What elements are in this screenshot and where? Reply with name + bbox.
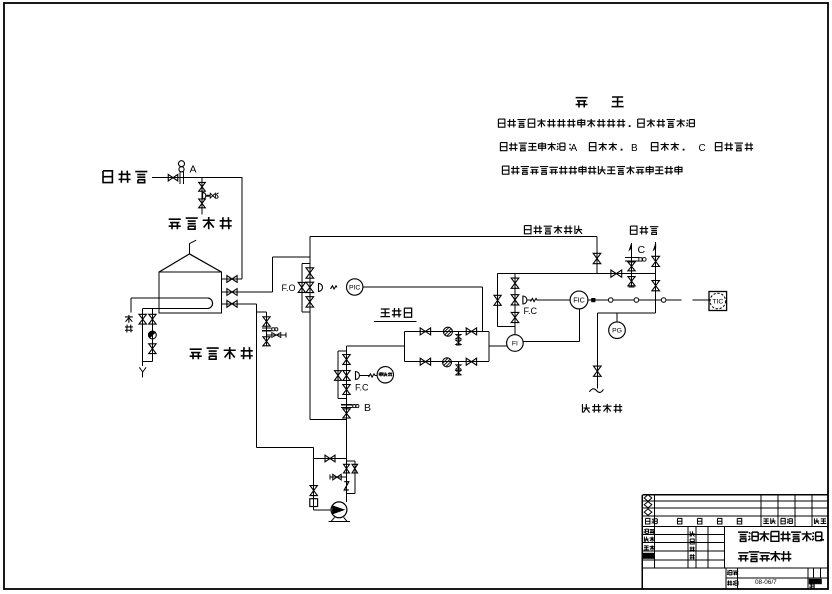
pipe suction into pump (314, 509, 332, 511)
blind plate B flange (341, 404, 352, 406)
valve tank middle nozzle (227, 289, 237, 296)
svg-text:08-06/7: 08-06/7 (755, 579, 777, 586)
valve FC-group top (511, 278, 519, 288)
valve V-inlet (168, 174, 178, 181)
tank body (159, 272, 221, 313)
pipe condensate left chain (142, 309, 144, 367)
valve F.O middle (306, 282, 314, 292)
suction strainer box (310, 499, 318, 507)
title block left column labels (644, 529, 649, 533)
valve F.O top (306, 268, 314, 278)
svg-text:TIC: TIC (712, 299, 723, 306)
arrow tip burner C (629, 244, 631, 251)
title block outline and rows (642, 494, 828, 496)
blind C handle (639, 258, 642, 261)
drawing title line 1 加热炉燃料油盲板、 (738, 532, 748, 541)
steam trap (149, 331, 157, 339)
figure-8 blind symbol above flange (179, 161, 185, 167)
valve filter top outlet (466, 328, 476, 335)
pipe FC-group main vertical (514, 274, 516, 327)
pipe discharge bypass loop (347, 460, 355, 462)
valve purge assembly upper (263, 317, 270, 326)
valve riser v3 (343, 385, 350, 395)
svg-text:B: B (364, 402, 371, 414)
pipe pump riser vertical (346, 346, 348, 502)
instrument PIC (347, 279, 363, 295)
pipe down from inlet to tank top nozzle (241, 177, 243, 279)
valve purge lower (199, 199, 206, 208)
valve suction (310, 486, 317, 496)
drain under bottom branch (457, 362, 459, 375)
valve riser bypass (335, 371, 342, 381)
instrument PG with stem (616, 313, 618, 322)
break squiggle at steam source (589, 389, 603, 393)
pipe main burner header (498, 273, 656, 275)
pipe tank bottom nozzle (221, 303, 256, 305)
pipe filter inlet (347, 345, 405, 347)
pipe tank middle nozzle to F.O manifold (221, 291, 272, 293)
valve atomizing steam (594, 366, 602, 376)
pipe atomizing steam riser (596, 313, 598, 388)
label 吹扫蒸汽 (purge steam, upper) (169, 219, 181, 229)
instrument TIC (square) (709, 292, 727, 311)
filter element bottom (443, 358, 452, 367)
svg-text:PIC: PIC (349, 284, 360, 291)
label 燃料油 (fuel oil inlet) (103, 171, 112, 183)
valve FC-group bypass (494, 295, 501, 305)
label 进火咀 (to burners) (630, 226, 637, 234)
valve riser v1 (343, 355, 350, 365)
valve purge assembly lower (263, 337, 270, 346)
arrow tip burner right (654, 244, 656, 251)
union circle 1 (608, 298, 613, 303)
note line 2 (500, 143, 507, 151)
pipe FI to FC-group (514, 327, 516, 335)
svg-text:A: A (571, 143, 578, 154)
flange pair at blind A (179, 171, 181, 184)
valve purge upper (199, 182, 206, 191)
valve tank bottom nozzle (227, 300, 237, 307)
title block bottom cells (727, 571, 732, 575)
instrument FIC (570, 291, 588, 309)
drain under top branch (457, 331, 459, 344)
title block vertical dividers (654, 495, 656, 568)
steam inlet stub to coil (130, 298, 132, 313)
label 燃料油循环线 (fuel oil circulation line) (524, 226, 531, 234)
control branch actuator squiggle to regulator (356, 372, 360, 380)
pipe FI to FIC riser (523, 340, 579, 342)
valve FC-group middle (511, 295, 519, 305)
valve burner right lower (652, 281, 660, 291)
union circle 2 (634, 298, 639, 303)
purge assembly branch at suction line (257, 311, 267, 313)
FC actuator and squiggle to FIC (523, 296, 527, 304)
label 吹扫蒸汽 (purge steam, lower) (190, 349, 202, 359)
valve F.O bottom (306, 297, 314, 307)
valve filter top inlet (420, 328, 430, 335)
pipe tank top nozzle (221, 278, 241, 280)
pipe burner branch C (631, 243, 633, 287)
title block vertical company text (690, 531, 694, 536)
drawing title line 2 吹扫流程图 (738, 553, 748, 562)
filter element top (443, 327, 452, 336)
pipe pump crossover (314, 458, 347, 460)
vent branch with valve (suction purge) (267, 334, 287, 336)
pipe FC-group bypass (497, 274, 499, 327)
spectacle blind flange (suction purge) (262, 327, 271, 329)
blind plate C flange (625, 257, 639, 259)
pipe F.O manifold main vertical (309, 236, 311, 419)
valve condensate right upper (149, 314, 156, 324)
svg-text:F.O: F.O (282, 283, 296, 293)
valve discharge bypass (352, 464, 358, 473)
valve crossover (325, 455, 335, 462)
revision diamonds (644, 495, 652, 501)
pipe suction down-run (256, 304, 258, 448)
tank heating coil lower (143, 308, 208, 310)
filter loop piping (403, 331, 405, 361)
pump P1 (331, 502, 347, 518)
instrument regulator circle (377, 367, 393, 383)
svg-text:C: C (699, 143, 706, 154)
pipe FIC outlet line (588, 299, 682, 301)
tank heating coil u-bend (208, 298, 213, 309)
svg-text:F.C: F.C (355, 383, 369, 393)
svg-text:B: B (631, 143, 638, 154)
valve burner C above header (628, 262, 635, 271)
svg-text:FI: FI (512, 340, 518, 347)
steam supply connection with actuator and squiggle arrow (203, 192, 206, 199)
svg-text:PG: PG (612, 328, 622, 335)
label 蒸汽 (steam, vertical) (125, 315, 133, 323)
instrument FI (507, 335, 524, 352)
check symbol Z on discharge (344, 482, 349, 490)
pipe riser bypass (338, 350, 347, 352)
title block header row small labels (645, 518, 649, 524)
pipe atomizing steam header (597, 312, 655, 314)
valve burner C below header (vent) (628, 277, 635, 286)
valve filter bottom inlet (420, 358, 430, 365)
pressure tap actuator and squiggle to PIC (319, 283, 323, 291)
pipe condensate right chain (151, 309, 153, 362)
valve below blind B (343, 409, 350, 418)
valve tank top nozzle (227, 276, 237, 283)
valve filter bottom outlet (466, 358, 476, 365)
valve burner header (611, 270, 622, 277)
tank vent pipe (189, 244, 191, 254)
pipe circulation line top header (310, 235, 597, 237)
valve FC-group bottom (511, 312, 519, 322)
signal line PIC to filter (363, 286, 483, 288)
valve condensate left (139, 314, 146, 324)
valve discharge main (344, 464, 350, 473)
tank conical roof (159, 254, 221, 272)
svg-text:C: C (638, 244, 646, 256)
inline square after FIC (591, 298, 595, 302)
drain branch at discharge (330, 476, 347, 478)
pipe purge steam drop at inlet (201, 178, 203, 215)
pipe F.O bypass (302, 263, 310, 265)
note line 3 (502, 166, 509, 174)
label 过滤器 (filter) with underline (380, 309, 390, 317)
pipe filter outlet to FI (489, 345, 507, 347)
note line 1 (498, 119, 505, 127)
pipe condensate join (143, 361, 153, 363)
svg-text:FIC: FIC (573, 296, 585, 305)
union circle 3 (661, 298, 666, 303)
tank heating coil upper (131, 297, 208, 299)
pump base (331, 517, 334, 521)
svg-text:F.C: F.C (524, 306, 538, 316)
pipe circulation drop with valve (596, 236, 598, 273)
svg-text:A: A (190, 164, 197, 176)
pipe F.O manifold to pump-riser link (310, 419, 347, 421)
pipe fuel oil inlet horizontal (152, 177, 242, 179)
pipe burner branch right (655, 242, 657, 313)
label 雾化蒸汽 (atomizing steam) (582, 404, 589, 413)
valve condensate right lower (149, 344, 156, 354)
valve riser v2 (343, 371, 350, 381)
funnel drain Y (139, 367, 142, 372)
valve F.O bypass (298, 282, 305, 292)
note title 说明 (576, 98, 588, 108)
valve burner right upper (652, 256, 660, 266)
